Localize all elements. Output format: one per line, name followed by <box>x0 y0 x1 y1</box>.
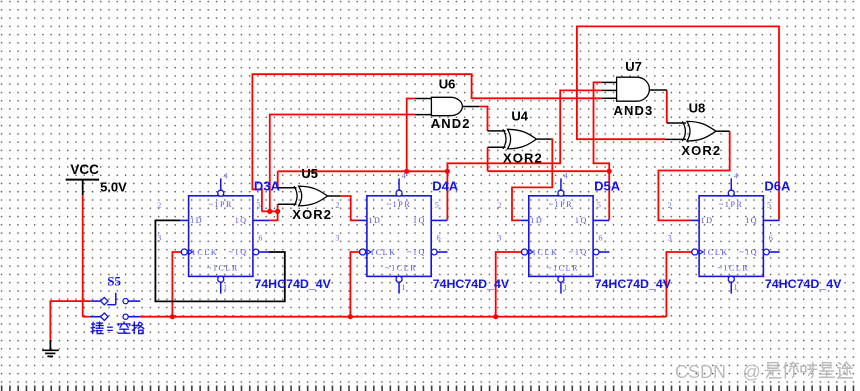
svg-text:5: 5 <box>597 201 601 210</box>
D5A clock wedge <box>529 250 533 255</box>
D5A pin 1 terminal diamond <box>558 276 564 282</box>
svg-text:1D: 1D <box>530 216 543 225</box>
S5 lever arm <box>107 304 116 306</box>
D4A pin 1 terminal diamond <box>396 276 402 282</box>
VCC bar <box>66 179 100 181</box>
D3A pin 3 CLK terminal diamond <box>181 249 187 255</box>
svg-text:AND3: AND3 <box>614 103 654 118</box>
svg-text:VCC: VCC <box>70 162 99 177</box>
junction net Q1 b <box>275 209 280 214</box>
net Q1 wire riser to U6 bottom input rail <box>270 115 415 212</box>
wire U4 output to FF3 1D <box>512 139 552 220</box>
D5A pin 4 ~1PR pin line <box>560 178 562 190</box>
D flip-flop D5A 74HC74D box <box>529 196 593 277</box>
svg-text:~1PR: ~1PR <box>719 200 744 209</box>
svg-text:~1Q: ~1Q <box>407 247 426 256</box>
D3A pin 5 1Q stub <box>253 219 269 221</box>
D5A pin 2 1D stub <box>520 219 529 221</box>
svg-text:1D: 1D <box>190 216 203 225</box>
svg-text:6: 6 <box>598 234 602 243</box>
D4A pin 6 ~1Q bubble <box>431 249 437 255</box>
net Q2 drop to U5 top input <box>277 171 279 188</box>
D4A pin 4 terminal diamond <box>396 190 402 196</box>
xor-gate U8 input-side double arc <box>682 121 685 141</box>
svg-text:6: 6 <box>258 234 262 243</box>
svg-text:1D: 1D <box>368 216 381 225</box>
svg-text:U8: U8 <box>689 100 706 115</box>
S5 upper-right lead <box>128 300 140 302</box>
U6 input stubs <box>415 98 431 100</box>
net Q3 wire FF3 1Q riser to U7 top input <box>594 82 610 220</box>
VCC stem <box>82 180 84 196</box>
U5 input stubs <box>278 187 297 189</box>
net Q2 riser to U6 top input <box>407 99 415 172</box>
wire U7 output to U8 top input <box>666 90 668 123</box>
S5 lower-left contact <box>101 313 108 320</box>
svg-text:~1Q: ~1Q <box>229 247 248 256</box>
clock riser to FF2 CLK <box>350 252 360 317</box>
S5 upper-right contact <box>123 299 128 304</box>
net Q1 wire up-left riser, top rail y74 to U7 bottom input <box>252 74 602 211</box>
svg-text:5.0V: 5.0V <box>100 180 127 195</box>
D6A pin 2 1D stub <box>691 219 700 221</box>
svg-text:5: 5 <box>435 201 439 210</box>
D6A pin 5 1Q stub <box>763 219 779 221</box>
D4A pin 6 ~1Q stub <box>437 251 447 253</box>
svg-text:74HC74D_4V: 74HC74D_4V <box>595 277 672 291</box>
svg-text:~1CLR: ~1CLR <box>547 264 579 273</box>
D4A clock wedge <box>367 250 371 255</box>
D4A pin 3 CLK terminal diamond <box>360 249 366 255</box>
clock riser to FF1 CLK <box>172 252 182 317</box>
U7 input stubs <box>602 81 617 83</box>
switch S5 key label 键 = 空格 <box>92 323 95 325</box>
svg-text:1Q: 1Q <box>235 216 248 225</box>
svg-text:1CLK: 1CLK <box>702 248 728 257</box>
clock rail wire y316.7 <box>140 316 667 318</box>
D3A pin 1 ~1CLR pin line <box>220 282 222 294</box>
junction clock rail FF1 <box>170 314 175 319</box>
svg-text:XOR2: XOR2 <box>681 143 721 158</box>
svg-text:~1Q: ~1Q <box>739 247 758 256</box>
net Q3 rail y171.2 <box>488 170 610 172</box>
U5 output stub <box>328 195 341 197</box>
D6A pin 1 terminal diamond <box>728 276 734 282</box>
net Q3 riser to U4 bottom input <box>487 147 489 171</box>
clock riser to FF3 CLK <box>496 252 522 317</box>
D flip-flop D4A 74HC74D box <box>367 196 431 277</box>
S5 upper-left lead <box>91 300 101 302</box>
svg-text:~1PR: ~1PR <box>208 200 233 209</box>
D5A pin 5 1Q stub <box>593 219 609 221</box>
svg-text:~1CLR: ~1CLR <box>385 264 417 273</box>
U8 output stub <box>716 130 730 132</box>
svg-text:1: 1 <box>223 283 227 292</box>
svg-text:1Q: 1Q <box>413 216 426 225</box>
wire U6 output to U4 top input <box>479 107 487 131</box>
svg-text:1CLK: 1CLK <box>192 248 218 257</box>
svg-text:1CLK: 1CLK <box>370 248 396 257</box>
net Q1 horizontal segment <box>262 210 278 212</box>
svg-text:=: = <box>107 324 114 336</box>
svg-text:1: 1 <box>563 283 567 292</box>
svg-text:1Q: 1Q <box>575 216 588 225</box>
svg-text:XOR2: XOR2 <box>292 207 332 222</box>
junction clock rail FF2 <box>348 314 353 319</box>
U8 input stubs <box>667 122 686 124</box>
D3A pin 4 terminal diamond <box>218 190 224 196</box>
svg-text:~1PR: ~1PR <box>549 200 574 209</box>
wire U5 output to FF2 1D <box>341 196 359 220</box>
svg-text:2: 2 <box>335 201 339 210</box>
D flip-flop D6A 74HC74D box <box>699 196 763 277</box>
xor-gate U8 gate body <box>687 121 716 141</box>
D4A pin 2 1D stub <box>358 219 367 221</box>
S5 lower-left lead <box>90 316 101 318</box>
svg-text:3: 3 <box>497 234 501 243</box>
D4A pin 5 1Q stub <box>431 219 447 221</box>
svg-text:U6: U6 <box>439 76 456 91</box>
svg-text:1: 1 <box>733 283 737 292</box>
svg-text:~1CLR: ~1CLR <box>717 264 749 273</box>
svg-text:U7: U7 <box>625 59 642 74</box>
clock riser to FF4 CLK <box>666 252 692 317</box>
svg-text:U4: U4 <box>511 109 528 124</box>
D5A pin 1 ~1CLR pin line <box>560 282 562 294</box>
svg-text:@: @ <box>743 362 761 382</box>
svg-text:6: 6 <box>769 234 773 243</box>
svg-text:D3A: D3A <box>254 178 281 193</box>
and-gate U7 gate body <box>617 77 650 101</box>
svg-text:AND2: AND2 <box>431 116 471 131</box>
U4 output stub <box>537 138 551 140</box>
junction net Q1 a <box>267 209 272 214</box>
D3A pin 1 terminal diamond <box>218 276 224 282</box>
wire ground to switch upper-left terminal <box>50 301 90 340</box>
net Q2 wire FF2 1Q riser to U7 middle input <box>447 90 602 220</box>
svg-text:~1PR: ~1PR <box>387 200 412 209</box>
bottom edge grid ticks <box>1 386 3 391</box>
D3A pin 2 1D stub <box>180 219 189 221</box>
U4 input stubs <box>488 130 506 132</box>
D5A pin 3 CLK terminal diamond <box>522 249 528 255</box>
D3A pin 6 ~1Q stub <box>259 251 269 253</box>
U6 output stub <box>463 106 480 108</box>
S5 lower-right lead <box>128 316 140 318</box>
ground bar 1 <box>42 349 59 351</box>
svg-text:1D: 1D <box>701 216 714 225</box>
S5 upper-left contact <box>101 297 108 304</box>
ground symbol <box>49 340 51 351</box>
svg-text:2: 2 <box>157 201 161 210</box>
svg-text:6: 6 <box>437 234 441 243</box>
svg-text:2: 2 <box>668 201 672 210</box>
black wire FF1 ~1Q feedback loop to FF1 1D <box>155 220 284 301</box>
D4A pin 1 ~1CLR pin line <box>398 282 400 294</box>
D flip-flop D3A 74HC74D box <box>189 196 253 277</box>
svg-text:3: 3 <box>157 234 161 243</box>
svg-text:CSDN: CSDN <box>675 362 726 382</box>
svg-text:XOR2: XOR2 <box>503 150 543 165</box>
svg-text:1CLK: 1CLK <box>532 248 558 257</box>
wire U8 output to FF4 1D <box>658 131 729 220</box>
U7 output stub <box>649 89 666 91</box>
junction net Q3 <box>607 169 612 174</box>
svg-text:~1Q: ~1Q <box>569 247 588 256</box>
D6A pin 1 ~1CLR pin line <box>730 282 732 294</box>
net Q1 wire: FF1 1Q to junction <box>269 204 278 220</box>
D3A pin 4 ~1PR pin line <box>220 178 222 190</box>
wire VCC to switch lower-left terminal <box>83 316 90 318</box>
junction net Q2 b <box>445 169 450 174</box>
svg-text:S5: S5 <box>107 273 121 288</box>
D5A pin 6 ~1Q bubble <box>593 249 599 255</box>
xor-gate U5 gate body <box>299 186 328 206</box>
D6A pin 6 ~1Q stub <box>769 251 779 253</box>
svg-text:D4A: D4A <box>432 178 459 193</box>
net Q4 wire FF4 1Q up over top to U8 bottom input <box>577 26 779 220</box>
D5A pin 4 terminal diamond <box>558 190 564 196</box>
xor-gate U4 gate body <box>508 129 537 149</box>
D5A pin 6 ~1Q stub <box>599 251 609 253</box>
ground bar 3 <box>47 355 53 357</box>
svg-text:3: 3 <box>335 234 339 243</box>
svg-text:1Q: 1Q <box>745 216 758 225</box>
D6A pin 6 ~1Q bubble <box>764 249 770 255</box>
junction clock rail FF3 <box>493 314 498 319</box>
svg-text:D5A: D5A <box>594 178 621 193</box>
svg-text:74HC74D_4V: 74HC74D_4V <box>765 277 842 291</box>
D4A pin 4 ~1PR pin line <box>398 178 400 190</box>
junction net Q2 a <box>404 169 409 174</box>
xor-gate U5 input-side double arc <box>294 186 297 206</box>
D3A clock wedge <box>189 250 193 255</box>
svg-text:1: 1 <box>401 283 405 292</box>
D6A clock wedge <box>699 250 703 255</box>
svg-text:5: 5 <box>257 201 261 210</box>
svg-text:74HC74D_4V: 74HC74D_4V <box>254 277 331 291</box>
wire VCC down to switch <box>82 195 84 316</box>
svg-text:~1CLR: ~1CLR <box>207 264 239 273</box>
D6A pin 4 ~1PR pin line <box>730 178 732 190</box>
svg-text:5: 5 <box>767 201 771 210</box>
xor-gate U4 input-side double arc <box>503 129 506 149</box>
svg-text:U5: U5 <box>301 166 318 181</box>
D3A pin 6 ~1Q bubble <box>253 249 259 255</box>
S5 lever tick <box>115 293 117 305</box>
ground bar 2 <box>45 352 55 354</box>
and-gate U6 gate body <box>431 97 462 115</box>
net Q2 rail R1 y171.3 <box>278 170 448 172</box>
S5 lower-right contact <box>123 314 128 319</box>
svg-text:3: 3 <box>668 234 672 243</box>
D6A pin 4 terminal diamond <box>728 190 734 196</box>
svg-text:D6A: D6A <box>764 178 791 193</box>
svg-text:74HC74D_4V: 74HC74D_4V <box>433 277 510 291</box>
svg-text:2: 2 <box>497 201 501 210</box>
D6A pin 3 CLK terminal diamond <box>692 249 698 255</box>
